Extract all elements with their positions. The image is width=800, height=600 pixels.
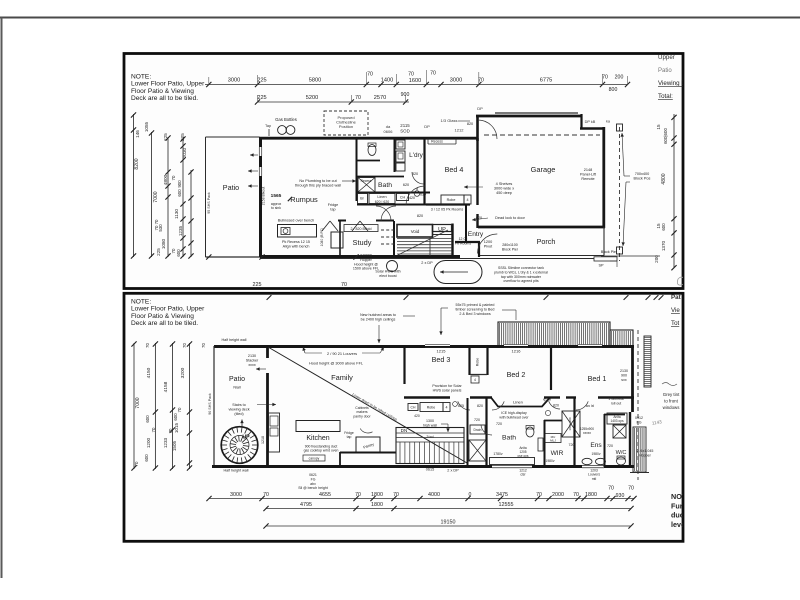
sheet 1 border (ground floor plan) (124, 54, 683, 289)
garage right wall (602, 127, 605, 228)
svg-text:plumb to WCs, L'dry & 1 x exte: plumb to WCs, L'dry & 1 x external (494, 270, 548, 274)
svg-text:abv: abv (310, 482, 316, 486)
svg-text:Gas Bottles: Gas Bottles (275, 117, 297, 122)
svg-text:Hood height @: Hood height @ (354, 262, 378, 266)
svg-text:95 SHS Pack: 95 SHS Pack (207, 192, 211, 214)
svg-text:70: 70 (145, 343, 150, 348)
svg-text:600: 600 (144, 454, 149, 462)
study dashed lines (381, 229, 396, 231)
kitchen island (296, 421, 340, 432)
svg-text:15: 15 (656, 124, 661, 130)
svg-text:70: 70 (628, 486, 634, 492)
svg-text:70: 70 (393, 492, 399, 498)
svg-text:sxx: sxx (621, 378, 627, 382)
svg-text:wo lxl: wo lxl (586, 404, 595, 408)
svg-text:xxxxx: xxxxx (583, 431, 591, 435)
svg-text:600: 600 (176, 249, 181, 257)
svg-text:1505: 1505 (172, 440, 177, 451)
door arc garage top (478, 120, 497, 139)
svg-text:225: 225 (180, 133, 185, 141)
svg-text:to front: to front (664, 399, 678, 404)
svg-text:900: 900 (401, 92, 410, 98)
svg-text:4800: 4800 (163, 174, 169, 185)
shower sheet1 (358, 178, 375, 193)
svg-text:3000: 3000 (230, 492, 242, 498)
svg-text:Fridge: Fridge (328, 203, 338, 207)
svg-text:elect boost: elect boost (379, 274, 396, 278)
svg-text:2 x DP: 2 x DP (447, 469, 459, 473)
svg-text:Stairs to: Stairs to (232, 403, 246, 407)
svg-text:Bed 3: Bed 3 (432, 355, 451, 364)
svg-text:70: 70 (355, 492, 361, 498)
svg-text:Floor Patio & Viewing: Floor Patio & Viewing (131, 88, 194, 95)
svg-text:Study: Study (353, 238, 372, 247)
svg-text:420: 420 (414, 414, 420, 418)
right hatch strip upper (644, 336, 651, 387)
svg-text:2148: 2148 (584, 168, 592, 172)
svg-text:be 2400 high ceilings: be 2400 high ceilings (361, 318, 396, 322)
svg-text:UP: UP (438, 227, 446, 233)
bottom dimension row2 sheet2 (266, 508, 631, 510)
svg-text:CH: CH (411, 406, 416, 410)
svg-text:Sll @ bench height: Sll @ bench height (298, 486, 327, 490)
svg-text:Rumpus: Rumpus (290, 195, 318, 204)
house left wall sheet1 (259, 137, 262, 257)
house bottom wall sheet1 (260, 255, 460, 258)
svg-text:clsr: clsr (520, 473, 526, 477)
svg-text:530: 530 (158, 224, 163, 232)
svg-text:3 / 12 05 Pk Rooms: 3 / 12 05 Pk Rooms (431, 208, 464, 212)
svg-text:Entry: Entry (468, 231, 484, 238)
svg-text:2030: 2030 (182, 147, 187, 158)
svg-text:4800: 4800 (661, 173, 667, 184)
svg-text:4795: 4795 (300, 502, 312, 508)
svg-text:Recess: Recess (361, 179, 372, 183)
svg-text:3200: 3200 (180, 367, 186, 378)
window segments top wall (425, 344, 450, 346)
svg-text:225: 225 (257, 78, 266, 84)
drain box (470, 425, 485, 434)
svg-text:L'dry: L'dry (409, 152, 423, 159)
svg-text:2158 Blkout: 2158 Blkout (262, 187, 266, 206)
pencil squiggle sheet1 (677, 277, 684, 285)
svg-text:2/wd: 2/wd (426, 435, 433, 439)
svg-text:Position: Position (339, 124, 353, 129)
svg-text:600|600: 600|600 (663, 128, 668, 144)
interior wall bath-ldry sheet1 (356, 138, 358, 176)
svg-text:Void: Void (411, 229, 420, 234)
svg-text:70: 70 (408, 72, 414, 78)
svg-text:70: 70 (355, 95, 361, 101)
svg-text:2 x DP: 2 x DP (421, 261, 433, 265)
svg-text:70: 70 (171, 248, 176, 253)
svg-text:70: 70 (263, 492, 269, 498)
hot water unit (387, 261, 398, 272)
svg-text:(tiled): (tiled) (234, 412, 243, 416)
garage top wall (476, 115, 582, 118)
svg-text:1980v: 1980v (546, 459, 555, 463)
svg-text:pantry door: pantry door (353, 414, 371, 418)
hall wall segments (338, 220, 346, 222)
house top wall sheet2 (214, 345, 634, 348)
svg-text:roll out: roll out (611, 401, 622, 405)
left dimension column sheet1 (133, 114, 135, 257)
svg-text:0912: 0912 (635, 416, 643, 420)
svg-text:Bed 4: Bed 4 (445, 165, 464, 174)
svg-text:through this ply braced wall: through this ply braced wall (295, 184, 341, 188)
svg-text:225: 225 (163, 133, 168, 141)
svg-text:Robe: Robe (476, 358, 480, 367)
svg-text:1055: 1055 (144, 121, 149, 132)
bath fixtures (490, 458, 535, 465)
linen closet (491, 398, 550, 407)
bed4 robe (441, 195, 464, 204)
svg-text:0: 0 (469, 492, 472, 498)
svg-text:70: 70 (177, 407, 182, 412)
svg-text:W/C: W/C (616, 450, 627, 456)
svg-text:Block Pos: Block Pos (634, 177, 651, 181)
svg-text:70: 70 (430, 71, 436, 77)
svg-text:SOD: SOD (400, 129, 410, 134)
svg-text:70: 70 (134, 461, 139, 466)
svg-text:3000 wide x: 3000 wide x (494, 187, 514, 191)
svg-text:Floor Patio & Viewing: Floor Patio & Viewing (131, 313, 194, 320)
svg-text:Half height wall: Half height wall (221, 338, 246, 342)
svg-text:Solar HWS with: Solar HWS with (375, 270, 400, 274)
svg-text:700x400: 700x400 (635, 172, 650, 176)
svg-text:1800: 1800 (371, 492, 383, 498)
garage step up wall (476, 116, 479, 142)
svg-text:200: 200 (615, 75, 624, 81)
svg-text:5200: 5200 (306, 95, 318, 101)
svg-text:2 & Bed 3 windows: 2 & Bed 3 windows (459, 312, 491, 316)
svg-text:4158: 4158 (163, 381, 169, 392)
svg-text:Dead lock to door: Dead lock to door (495, 216, 525, 220)
door arc ldry (412, 172, 424, 184)
ens shower xbox (613, 425, 626, 438)
study right wall (393, 221, 395, 257)
wir shower xbox (562, 411, 580, 437)
svg-text:2 / 90 21 Louvers: 2 / 90 21 Louvers (327, 351, 357, 356)
block pier dashed line sheet1 (619, 127, 621, 261)
viewing deck hatch right part (610, 330, 633, 346)
svg-text:Ens: Ens (590, 442, 602, 449)
shower stairwell xbox (469, 440, 486, 461)
svg-text:1200: 1200 (484, 240, 492, 244)
svg-text:70: 70 (608, 486, 614, 492)
svg-text:Pivot: Pivot (484, 245, 493, 249)
svg-text:Recess: Recess (431, 140, 443, 144)
svg-text:Tap: Tap (265, 124, 271, 128)
bottom wall window gaps sheet2 (492, 466, 532, 468)
svg-text:Lower Floor Patio, Upper: Lower Floor Patio, Upper (131, 81, 205, 88)
svg-text:2 /6x1.045: 2 /6x1.045 (637, 449, 654, 453)
svg-text:gas cooktop w/nd oven: gas cooktop w/nd oven (304, 449, 339, 453)
svg-text:No Plumbing to be cut: No Plumbing to be cut (299, 179, 337, 183)
svg-text:1080: 1080 (161, 238, 166, 249)
right dimension column sheet1 (673, 114, 675, 268)
svg-text:with bulkhead over: with bulkhead over (499, 415, 529, 419)
svg-text:1233: 1233 (163, 437, 168, 448)
svg-text:7000: 7000 (153, 191, 159, 202)
svg-text:canopy: canopy (309, 457, 320, 461)
svg-text:19150: 19150 (441, 520, 456, 526)
svg-text:1080 (B PC): 1080 (B PC) (320, 228, 324, 247)
svg-text:70: 70 (536, 492, 542, 498)
svg-text:2130: 2130 (248, 354, 256, 358)
stairs up sheet1 (451, 224, 453, 257)
svg-text:Linen: Linen (377, 195, 386, 199)
svg-text:1565: 1565 (271, 193, 282, 199)
svg-text:FG: FG (637, 420, 642, 424)
svg-text:NOTE:: NOTE: (131, 299, 151, 306)
up box sheet1 (433, 225, 452, 232)
svg-text:Grey tint: Grey tint (663, 392, 680, 397)
patio outline sheet1 (206, 136, 260, 138)
top border ticks sheet2 (267, 295, 272, 300)
svg-text:MLJ: MLJ (550, 439, 556, 443)
svg-text:2570: 2570 (374, 95, 386, 101)
svg-text:1780v: 1780v (493, 452, 503, 456)
svg-text:Bullnosed over bench: Bullnosed over bench (278, 219, 315, 223)
svg-text:12555: 12555 (499, 502, 514, 508)
svg-text:Viewing D: Viewing D (658, 80, 686, 87)
svg-text:630: 630 (420, 193, 426, 197)
svg-text:Provision for Solar: Provision for Solar (432, 384, 462, 388)
svg-text:70: 70 (602, 75, 608, 81)
patio left line sheet2 (213, 346, 215, 467)
svg-text:600: 600 (145, 415, 150, 423)
svg-text:70: 70 (341, 282, 347, 288)
svg-text:620 | 620: 620 | 620 (375, 200, 390, 204)
svg-text:70: 70 (573, 492, 579, 498)
svg-text:Hopper: Hopper (360, 258, 373, 262)
svg-text:4 Shelves: 4 Shelves (496, 182, 513, 186)
svg-text:1370: 1370 (661, 240, 666, 251)
svg-text:cse ops: cse ops (518, 454, 529, 458)
svg-text:6775: 6775 (540, 78, 552, 84)
svg-text:viewing deck: viewing deck (228, 408, 249, 412)
svg-text:70: 70 (168, 428, 173, 433)
rainwater tank oval (434, 261, 482, 284)
svg-text:720: 720 (496, 422, 502, 426)
svg-text:NOTE:: NOTE: (131, 74, 151, 81)
svg-text:Lower Floor Patio, Upper: Lower Floor Patio, Upper (131, 306, 205, 313)
svg-text:4: 4 (466, 198, 468, 202)
raked ceiling diagonal (268, 347, 467, 463)
garage door dashed line (484, 134, 600, 136)
svg-text:Niall: Niall (233, 386, 240, 390)
svg-text:Pat: Pat (671, 294, 681, 301)
svg-text:600: 600 (177, 189, 182, 197)
svg-text:820: 820 (417, 214, 423, 218)
svg-text:Panel-Lift: Panel-Lift (580, 173, 597, 177)
svg-text:225: 225 (253, 282, 262, 288)
svg-text:1600: 1600 (409, 78, 421, 84)
svg-text:DP kB: DP kB (585, 120, 596, 124)
svg-text:720: 720 (607, 444, 613, 448)
svg-text:70: 70 (171, 175, 176, 180)
svg-text:70: 70 (151, 427, 156, 432)
svg-text:DN: DN (401, 428, 408, 433)
svg-text:2 / 820 Bifold: 2 / 820 Bifold (351, 227, 372, 231)
svg-text:Drain: Drain (474, 428, 482, 432)
svg-text:600: 600 (661, 223, 666, 231)
svg-text:Vie: Vie (671, 307, 680, 314)
svg-text:Garage: Garage (531, 165, 556, 174)
kitchen bottom wall (340, 452, 396, 454)
study top bifold (322, 221, 330, 231)
svg-text:New hutched areas to: New hutched areas to (360, 313, 396, 317)
top dimension line row1 sheet1 (205, 84, 628, 86)
svg-text:Remote: Remote (581, 177, 594, 181)
svg-text:1800: 1800 (371, 502, 383, 508)
svg-text:70: 70 (478, 78, 484, 84)
svg-text:Robe: Robe (427, 406, 436, 410)
svg-text:DP: DP (424, 124, 430, 129)
svg-text:820: 820 (476, 216, 482, 220)
svg-text:8200: 8200 (134, 158, 140, 169)
svg-text:1235: 1235 (178, 225, 183, 236)
svg-text:2130: 2130 (620, 369, 628, 373)
ground line sheet1 (260, 258, 594, 260)
kitchen counter (269, 413, 280, 452)
bed2 bed1 wall (550, 347, 552, 390)
svg-text:146: 146 (135, 130, 140, 138)
svg-text:70: 70 (367, 72, 373, 78)
door arc entry (478, 234, 498, 254)
svg-text:1216: 1216 (512, 349, 522, 354)
svg-text:Family: Family (331, 373, 353, 382)
svg-text:xp lxll: xp lxll (543, 398, 552, 402)
door arcs corridor (458, 401, 470, 410)
svg-text:240666: 240666 (360, 254, 372, 258)
svg-text:Bath: Bath (502, 435, 516, 442)
left dimension column sheet2 (133, 343, 135, 469)
svg-text:Linen: Linen (513, 400, 523, 405)
door arc hall (376, 206, 391, 221)
svg-text:Deck are all to be tiled.: Deck are all to be tiled. (131, 95, 198, 102)
svg-text:mtl: mtl (592, 477, 597, 481)
svg-text:Stacker: Stacker (246, 359, 259, 363)
svg-text:820: 820 (467, 122, 473, 126)
svg-text:12 05: 12 05 (459, 237, 468, 241)
top dimension line row2 sheet1 (258, 101, 410, 103)
robe closet walls beds23 (468, 347, 470, 375)
svg-text:2000: 2000 (552, 492, 564, 498)
page left edge line (1, 18, 3, 579)
door arc bath (481, 425, 492, 435)
corridor wall sheet2 (404, 396, 450, 398)
svg-text:1000x900: 1000x900 (568, 417, 572, 431)
svg-text:4000: 4000 (428, 492, 440, 498)
svg-text:windows: windows (663, 405, 681, 410)
svg-text:Hopper: Hopper (639, 454, 652, 458)
svg-text:3000: 3000 (450, 78, 462, 84)
svg-text:to sink: to sink (271, 206, 281, 210)
svg-text:1500 above FFL: 1500 above FFL (353, 267, 379, 271)
svg-text:225: 225 (156, 248, 161, 256)
svg-text:timber screening to Bed: timber screening to Bed (456, 308, 495, 312)
svg-text:FG: FG (311, 477, 316, 481)
svg-text:Bed 2: Bed 2 (507, 370, 526, 379)
svg-text:Kitchen: Kitchen (306, 435, 329, 442)
garage left wall (476, 138, 478, 205)
svg-text:70: 70 (182, 343, 187, 348)
svg-text:high wall: high wall (423, 423, 437, 427)
svg-text:Block Pier: Block Pier (502, 247, 519, 251)
viewing deck hatch (498, 322, 610, 346)
svg-text:70: 70 (201, 343, 206, 348)
svg-text:Total:: Total: (658, 93, 673, 100)
svg-text:1400: 1400 (381, 78, 393, 84)
sheet 2 border (upper floor plan) (124, 293, 683, 541)
svg-text:7000: 7000 (135, 397, 141, 408)
garage bottom wall (478, 226, 605, 229)
svg-text:3475: 3475 (496, 492, 508, 498)
dn stairs (396, 428, 464, 464)
spiral stair (221, 427, 258, 464)
svg-text:600: 600 (173, 413, 178, 421)
svg-text:1218: 1218 (261, 436, 265, 444)
svg-text:1800: 1800 (585, 492, 597, 498)
svg-text:tap: tap (330, 207, 335, 211)
house right wall sheet2 (631, 346, 634, 412)
svg-text:720: 720 (569, 443, 575, 447)
left wall window gaps (259, 147, 262, 156)
svg-text:720: 720 (474, 418, 480, 422)
svg-text:UP: UP (242, 435, 250, 441)
svg-text:tap with 300mm rainwater: tap with 300mm rainwater (501, 275, 542, 279)
clothesline dashed box (324, 111, 368, 135)
wir shelf strip (538, 438, 543, 451)
svg-text:HWS solar panels: HWS solar panels (433, 388, 462, 392)
house bottom wall sheet2 (212, 465, 634, 468)
bed3 left wall (403, 347, 405, 384)
svg-text:1403 ops: 1403 ops (610, 419, 624, 423)
svg-text:55x75 primed & painted: 55x75 primed & painted (456, 303, 495, 307)
svg-text:Block Pier: Block Pier (601, 250, 618, 254)
svg-text:Bed 1: Bed 1 (588, 374, 607, 383)
svg-text:280x1100: 280x1100 (502, 243, 518, 247)
svg-text:800: 800 (609, 87, 618, 93)
bed4 bottom wall (426, 203, 470, 205)
svg-text:4: 4 (474, 378, 476, 382)
svg-text:1130: 1130 (174, 209, 179, 219)
svg-text:Half height wall: Half height wall (223, 469, 248, 473)
svg-text:Tot: Tot (671, 320, 680, 327)
house top wall sheet1 (259, 137, 478, 140)
svg-text:1300: 1300 (426, 419, 434, 423)
toilet ovals (582, 458, 592, 464)
svg-text:Robe: Robe (447, 198, 456, 202)
svg-text:900: 900 (621, 373, 627, 377)
svg-text:Pk Rooms: Pk Rooms (455, 241, 471, 245)
svg-text:Deck are all to be tiled.: Deck are all to be tiled. (131, 320, 198, 327)
svg-text:420: 420 (409, 196, 415, 200)
svg-text:820: 820 (553, 404, 559, 408)
svg-text:0615: 0615 (426, 468, 434, 472)
svg-text:225: 225 (257, 95, 266, 101)
house left wall sheet2 (266, 346, 269, 358)
right pier dashed line sheet2 (637, 330, 639, 480)
bath vanity row (358, 194, 368, 204)
svg-text:3000: 3000 (228, 78, 240, 84)
hall ch robe boxes (408, 404, 418, 411)
svg-text:4: 4 (446, 406, 448, 410)
svg-text:SSSL Slimline connector tank: SSSL Slimline connector tank (498, 266, 544, 270)
anita window note (607, 413, 627, 424)
